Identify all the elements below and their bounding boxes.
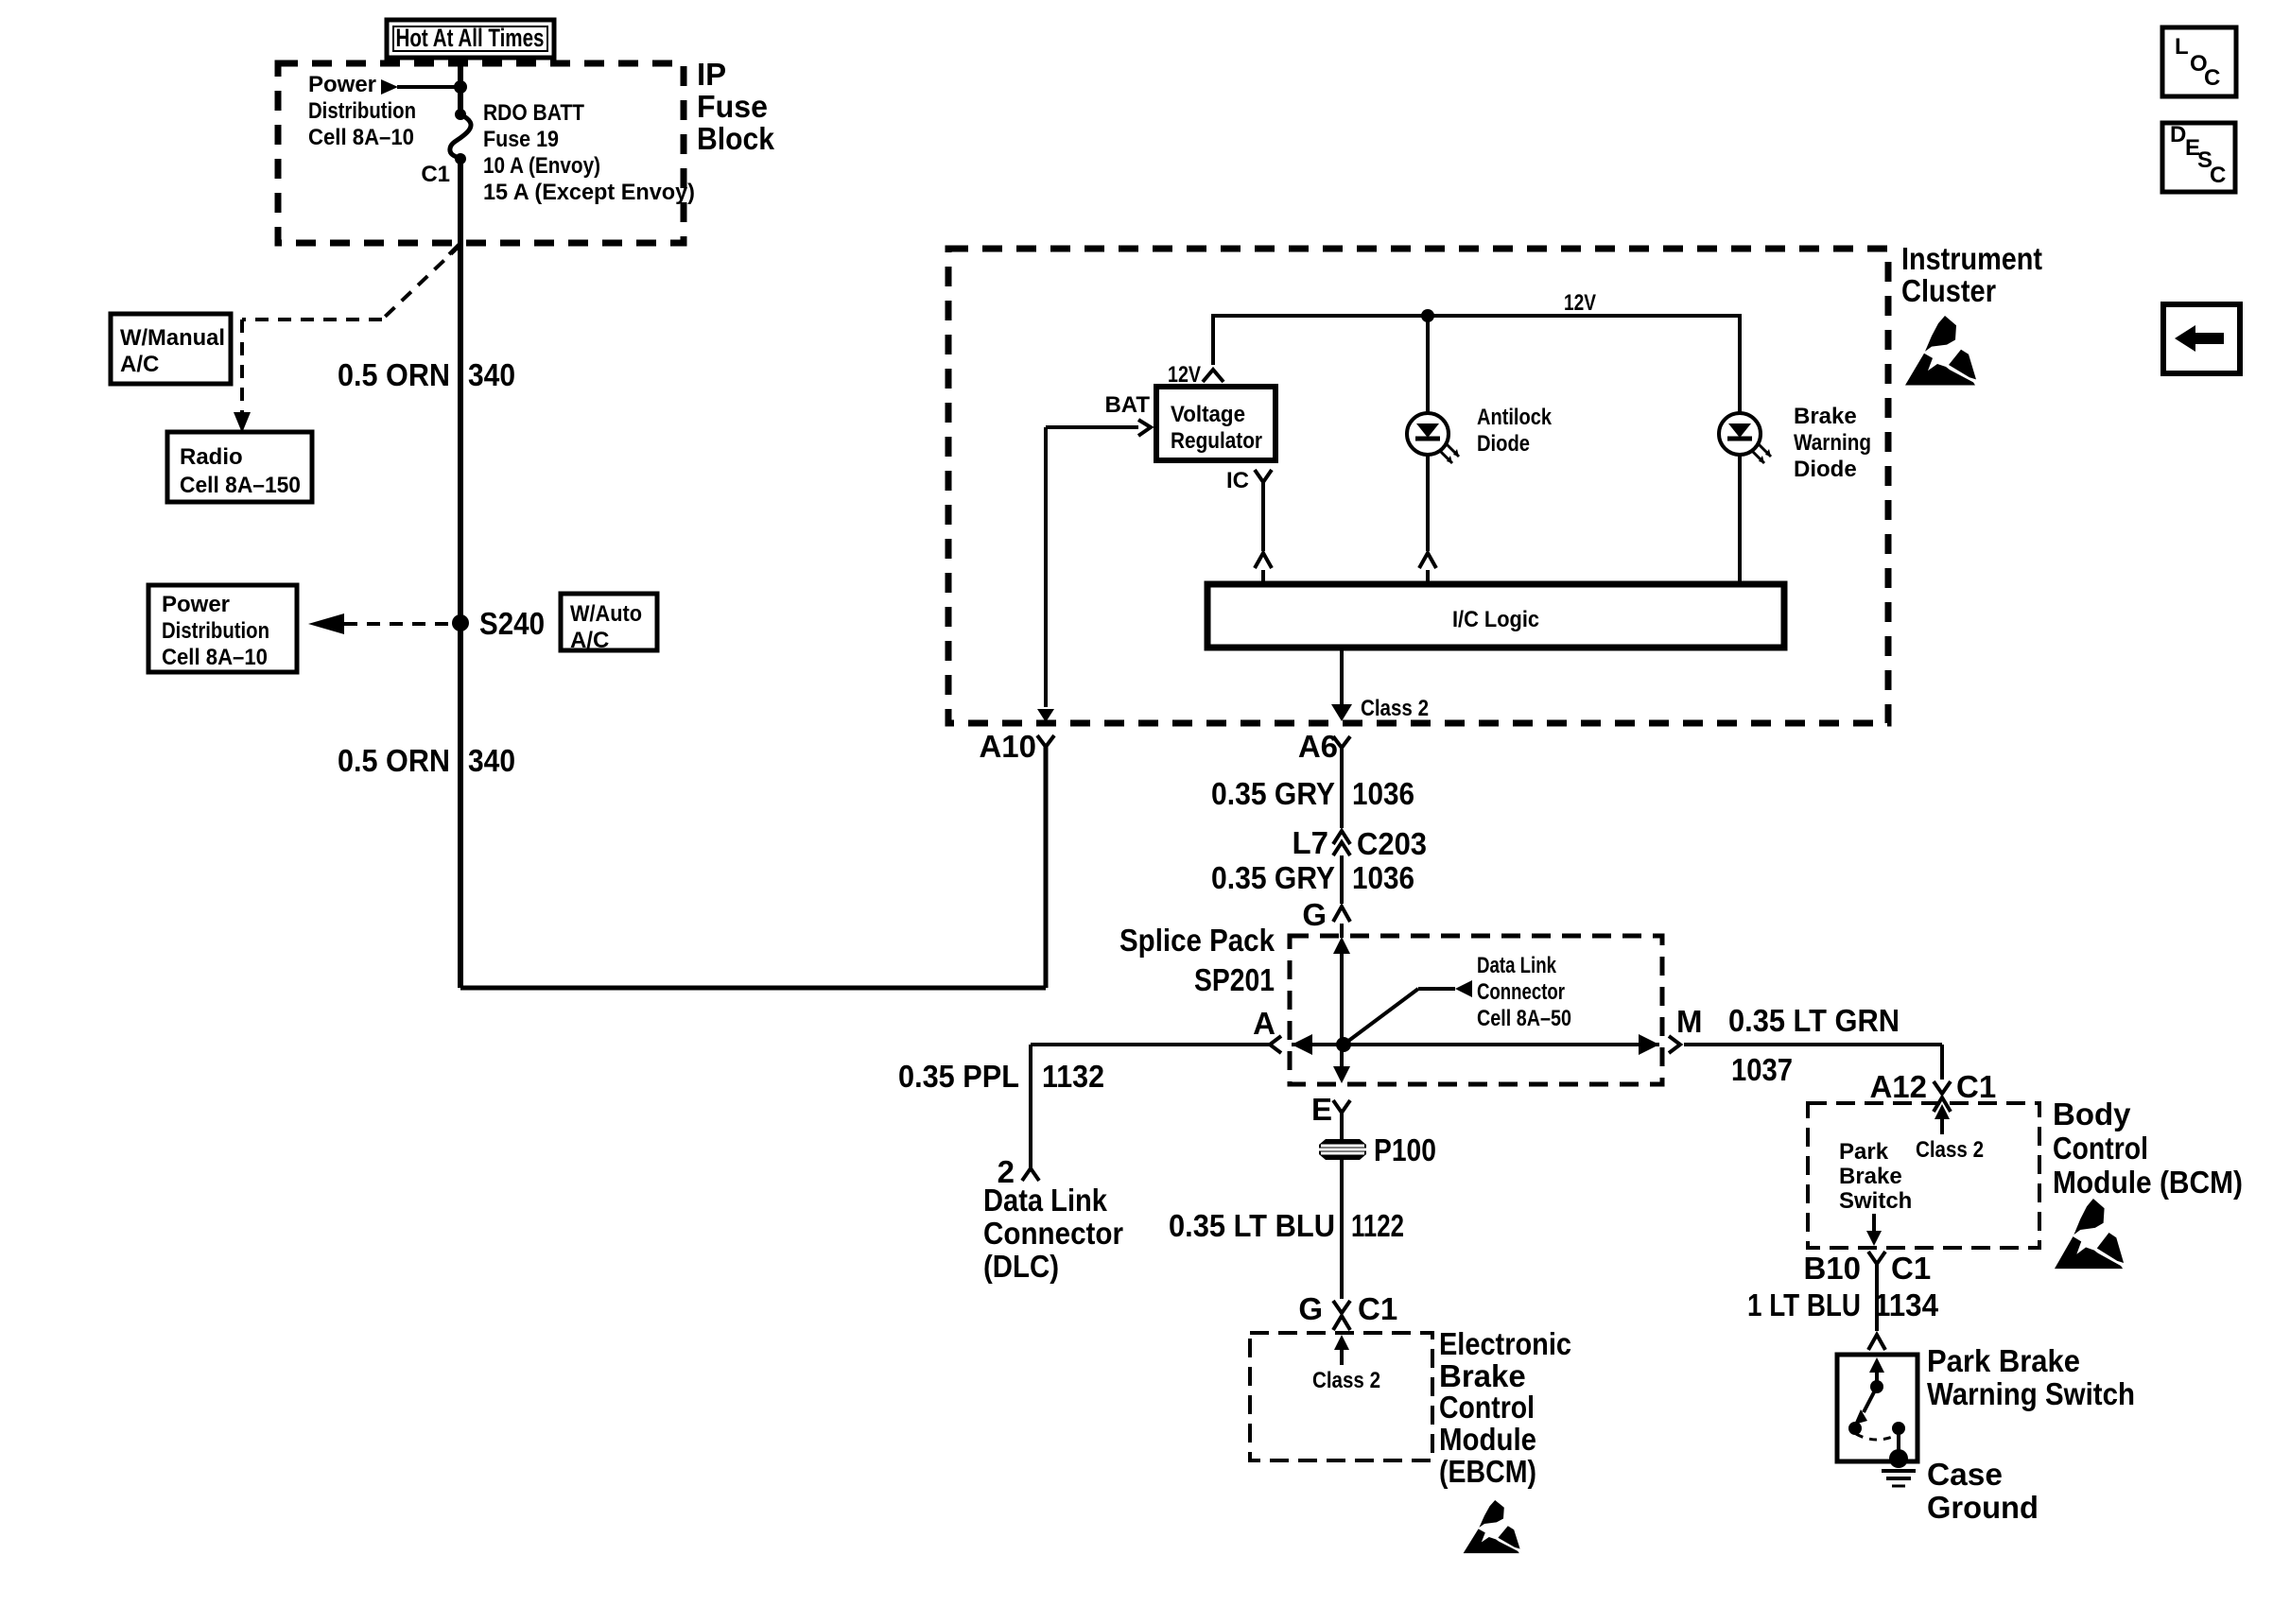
svg-text:A12: A12 (1869, 1069, 1927, 1104)
svg-text:1122: 1122 (1351, 1208, 1404, 1243)
svg-text:Body: Body (2053, 1097, 2131, 1132)
arrow out of BCM (1872, 1214, 1876, 1238)
svg-text:Warning: Warning (1794, 430, 1871, 456)
svg-text:10 A (Envoy): 10 A (Envoy) (483, 153, 600, 179)
LED arrows (brake warning) (1759, 444, 1771, 457)
svg-text:0.5 ORN: 0.5 ORN (338, 357, 450, 392)
wire BAT to A10 (1046, 425, 1138, 429)
svg-text:Power: Power (308, 72, 376, 97)
svg-text:1132: 1132 (1042, 1059, 1104, 1094)
wire E to P100 (1340, 1113, 1344, 1139)
fuse F19 RDO BATT (squiggle symbol) (455, 109, 466, 120)
wire Class 2 output of I/C Logic (1340, 648, 1344, 704)
ESD symbol (cluster) (1905, 316, 1976, 385)
icon back-arrow box (2163, 304, 2240, 373)
wire to antilock diode (1426, 316, 1430, 413)
svg-text:Brake: Brake (1794, 404, 1857, 429)
pin G of splice pack (1333, 907, 1350, 922)
case ground node (1889, 1449, 1908, 1468)
arrow to Radio cell (234, 412, 251, 433)
svg-text:C1: C1 (421, 162, 450, 187)
splice pack SP201 dashed box (1290, 936, 1662, 1084)
arrow: Power Distribution feed (381, 79, 398, 95)
svg-text:Control: Control (2053, 1131, 2148, 1166)
pin of park brake warning switch (1868, 1335, 1885, 1350)
svg-text:Power: Power (162, 592, 230, 617)
svg-text:15 A (Except Envoy): 15 A (Except Envoy) (483, 180, 695, 205)
svg-text:Voltage: Voltage (1171, 402, 1245, 427)
svg-text:L7: L7 (1292, 825, 1328, 860)
arrow right (M) (1639, 1034, 1659, 1055)
svg-text:Fuse 19: Fuse 19 (483, 127, 559, 152)
svg-text:0.35 GRY: 0.35 GRY (1211, 776, 1335, 811)
svg-text:S240: S240 (479, 606, 545, 641)
EBCM dashed box (1250, 1333, 1432, 1460)
svg-text:Distribution: Distribution (308, 98, 416, 124)
svg-text:12V: 12V (1564, 290, 1596, 316)
svg-text:I/C Logic: I/C Logic (1452, 607, 1539, 632)
svg-text:Splice Pack: Splice Pack (1119, 923, 1275, 958)
box Radio Cell 8A-150 (167, 432, 312, 502)
svg-text:Diode: Diode (1794, 457, 1857, 482)
svg-text:A6: A6 (1298, 729, 1338, 764)
svg-text:G: G (1298, 1291, 1323, 1326)
svg-text:Cell 8A–50: Cell 8A–50 (1477, 1006, 1571, 1031)
svg-text:(EBCM): (EBCM) (1439, 1454, 1536, 1489)
svg-text:P100: P100 (1374, 1132, 1436, 1167)
svg-text:BAT: BAT (1104, 392, 1150, 418)
dashed link splice S240 to Power Distribution (344, 622, 454, 626)
wire 0.35 LT GRN 1037 to BCM (1684, 1043, 1942, 1046)
arrow down (E) (1333, 1066, 1350, 1083)
svg-text:Ground: Ground (1927, 1490, 2039, 1525)
power label box "Hot At All Times" (387, 20, 554, 58)
icon DESC box (2162, 123, 2235, 192)
diode D1 Antilock Diode (1407, 413, 1449, 455)
Instrument Cluster dashed box (948, 249, 1888, 723)
switch internal: terminal arrow (1875, 1361, 1879, 1384)
svg-text:Electronic: Electronic (1439, 1326, 1571, 1361)
svg-text:A: A (1253, 1006, 1275, 1041)
svg-text:SP201: SP201 (1194, 962, 1275, 997)
svg-text:Cell 8A–10: Cell 8A–10 (308, 125, 414, 150)
node: junction to Power Distribution (454, 80, 467, 94)
svg-text:IC: IC (1226, 468, 1249, 493)
svg-text:D: D (2170, 122, 2186, 147)
note box W/Manual A/C (111, 314, 231, 384)
note box W/Auto A/C (561, 594, 657, 650)
wire: bottom run to instrument cluster A10 (460, 986, 1046, 991)
dashed reference line to W/Manual A/C note (382, 245, 460, 320)
svg-text:A/C: A/C (120, 352, 159, 377)
switch internal: lever (1870, 1380, 1883, 1393)
box Power Distribution Cell 8A-10 (148, 585, 297, 672)
svg-text:Connector: Connector (983, 1216, 1123, 1251)
svg-text:1036: 1036 (1352, 776, 1414, 811)
svg-text:Cluster: Cluster (1901, 273, 1996, 308)
svg-text:0.5 ORN: 0.5 ORN (338, 743, 450, 778)
arrow up into splice (1333, 937, 1350, 954)
svg-text:Class 2: Class 2 (1312, 1368, 1380, 1393)
svg-text:A/C: A/C (570, 628, 609, 653)
svg-text:340: 340 (468, 743, 515, 778)
pin G C1 of EBCM (1333, 1301, 1350, 1313)
svg-text:Connector: Connector (1477, 979, 1565, 1005)
svg-text:Class 2: Class 2 (1916, 1137, 1984, 1163)
connector C203 pin L7 (double chevron) (1333, 831, 1350, 844)
wire 0.35 PPL 1132 to DLC (1031, 1043, 1270, 1046)
svg-text:Module: Module (1439, 1422, 1536, 1457)
svg-text:B10: B10 (1803, 1251, 1861, 1286)
svg-text:Block: Block (697, 121, 775, 156)
svg-text:Data Link: Data Link (983, 1183, 1108, 1218)
icon LOC box (2162, 27, 2236, 96)
svg-text:C: C (2210, 163, 2226, 188)
wire 0.35 LT BLU 1122 (1340, 1160, 1344, 1299)
svg-text:Instrument: Instrument (1901, 241, 2042, 276)
svg-text:C: C (2204, 65, 2220, 91)
svg-text:Hot At All Times: Hot At All Times (396, 24, 545, 52)
svg-text:E: E (1311, 1092, 1332, 1127)
wire 1 LT BLU 1134 (1875, 1264, 1879, 1331)
svg-text:Radio: Radio (180, 444, 243, 470)
svg-text:12V: 12V (1168, 362, 1201, 388)
pin A6 connector (1333, 736, 1350, 748)
svg-text:Park: Park (1839, 1139, 1889, 1165)
arrow into BCM (1940, 1108, 1944, 1134)
svg-text:W/Auto: W/Auto (570, 601, 642, 627)
svg-text:C1: C1 (1891, 1251, 1931, 1286)
svg-text:Antilock: Antilock (1477, 405, 1553, 430)
svg-text:Fuse: Fuse (697, 89, 768, 124)
svg-text:C1: C1 (1358, 1291, 1397, 1326)
grommet P100 (1319, 1139, 1366, 1160)
svg-text:1037: 1037 (1731, 1052, 1793, 1087)
switch internal: contacts (1848, 1422, 1862, 1435)
svg-text:RDO BATT: RDO BATT (483, 100, 584, 126)
svg-text:IP: IP (697, 57, 726, 92)
svg-text:Diode: Diode (1477, 431, 1530, 457)
wire 12V bus (1213, 316, 1740, 413)
ground symbol (1882, 1469, 1916, 1473)
IP Fuse Block dashed box (278, 63, 684, 243)
wire 0.35 GRY 1036 (upper) (1340, 748, 1344, 828)
diode D2 Brake Warning Diode (1719, 413, 1761, 455)
splice S240 (452, 614, 469, 631)
ESD symbol (BCM) (2055, 1199, 2124, 1269)
arrow at A10 exit (1037, 709, 1054, 722)
op-amp U1: Voltage Regulator box (1156, 387, 1275, 460)
pin B10 C1 (1868, 1252, 1885, 1264)
svg-text:0.35 LT BLU: 0.35 LT BLU (1169, 1208, 1335, 1243)
wire splice vertical (1340, 952, 1344, 1068)
wire: battery feed from Hot At All Times into fuse (458, 58, 463, 114)
BCM dashed box (1808, 1103, 2039, 1248)
svg-text:1036: 1036 (1352, 860, 1414, 895)
svg-text:1 LT BLU: 1 LT BLU (1747, 1287, 1861, 1322)
ESD symbol (EBCM) (1464, 1500, 1520, 1553)
pin A12 C1 of BCM (1934, 1081, 1951, 1094)
LED arrows (antilock) (1447, 444, 1459, 457)
svg-text:W/Manual: W/Manual (120, 325, 225, 351)
svg-text:Warning Switch: Warning Switch (1927, 1376, 2135, 1411)
svg-text:Cell 8A–150: Cell 8A–150 (180, 473, 301, 498)
svg-text:1134: 1134 (1874, 1287, 1939, 1322)
svg-text:0.35 GRY: 0.35 GRY (1211, 860, 1335, 895)
svg-text:0.35 LT GRN: 0.35 LT GRN (1728, 1003, 1900, 1038)
svg-text:(DLC): (DLC) (983, 1249, 1059, 1284)
svg-text:Distribution: Distribution (162, 618, 269, 644)
svg-text:C1: C1 (1956, 1069, 1996, 1104)
arrow left (A) (1292, 1034, 1312, 1055)
svg-text:Switch: Switch (1839, 1188, 1912, 1214)
svg-text:Control: Control (1439, 1390, 1535, 1425)
wire splice horizontal (1292, 1043, 1659, 1046)
svg-text:0.35 PPL: 0.35 PPL (898, 1059, 1019, 1094)
svg-text:Data Link: Data Link (1477, 953, 1557, 978)
svg-text:G: G (1302, 897, 1327, 932)
svg-text:Case: Case (1927, 1457, 2003, 1492)
svg-text:L: L (2175, 34, 2189, 60)
svg-text:340: 340 (468, 357, 515, 392)
svg-text:Regulator: Regulator (1171, 428, 1262, 454)
wire to Power Distribution cell (397, 85, 460, 89)
pin E of splice pack (1333, 1100, 1350, 1113)
svg-text:Module (BCM): Module (BCM) (2053, 1165, 2243, 1200)
pin 2 of DLC (1022, 1168, 1039, 1181)
svg-text:Brake: Brake (1439, 1358, 1526, 1393)
svg-text:Brake: Brake (1839, 1164, 1902, 1189)
pin A10 connector (1037, 735, 1054, 747)
node 12V bus junction (1421, 309, 1434, 322)
svg-text:Park Brake: Park Brake (1927, 1343, 2080, 1378)
switch SW1: Park Brake Warning Switch box (1837, 1355, 1917, 1461)
ref: Data Link Connector Cell 8A-50 (1344, 989, 1418, 1045)
svg-text:A10: A10 (979, 729, 1036, 764)
svg-text:M: M (1676, 1004, 1703, 1039)
svg-text:Class 2: Class 2 (1361, 696, 1429, 721)
IC block: I/C Logic (1207, 584, 1784, 648)
wire: 0.5 ORN 340 main vertical run (458, 159, 463, 988)
svg-text:C203: C203 (1357, 826, 1427, 861)
pin M (1669, 1036, 1680, 1053)
pin A (1270, 1036, 1281, 1053)
arrow into EBCM (1340, 1339, 1344, 1365)
svg-text:Cell 8A–10: Cell 8A–10 (162, 645, 268, 670)
node splice junction (1336, 1037, 1351, 1052)
pin 12V of voltage regulator (1203, 370, 1223, 382)
connector C1 tick at fuse block edge (449, 243, 460, 254)
wire 0.35 GRY 1036 (lower) (1340, 855, 1344, 904)
